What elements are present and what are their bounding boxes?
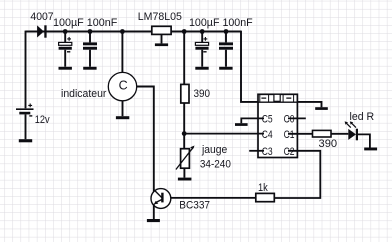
resistor R1 390 xyxy=(181,84,189,103)
resistor R2 390 xyxy=(313,130,332,137)
wire pin C2 to R3 1k xyxy=(274,151,320,198)
wire IC minus pin to ground xyxy=(297,102,321,107)
capacitor C3 100uF xyxy=(195,32,208,67)
resistor R3 1k xyxy=(256,193,274,201)
svg-text:12v: 12v xyxy=(35,114,50,126)
wire meter to ground xyxy=(122,101,124,116)
wire top rail xyxy=(26,31,242,33)
wire rail to R1 xyxy=(183,32,185,85)
junction dot node R1-jauge-C4 xyxy=(182,131,187,136)
ground at emitter xyxy=(147,219,160,222)
variable resistor jauge xyxy=(176,146,195,170)
svg-text:100µF 100nF: 100µF 100nF xyxy=(53,17,118,29)
junction dot at C1 xyxy=(63,29,68,34)
svg-text:C5: C5 xyxy=(262,113,273,125)
wire pin C1 to R2 xyxy=(288,133,313,135)
junction dot rail at R1 xyxy=(182,29,187,34)
svg-text:390: 390 xyxy=(194,88,211,100)
wire jauge to ground xyxy=(183,168,185,177)
ground under meter xyxy=(116,116,129,119)
wire R3 to transistor base xyxy=(163,197,255,199)
pin C0 stub xyxy=(288,117,306,119)
capacitor C2 100nF xyxy=(83,32,97,67)
capacitor C1 100uF xyxy=(59,32,72,67)
wire R2 to LED xyxy=(331,133,348,135)
diode D1 1N4007 xyxy=(37,25,47,37)
LED D2 led R xyxy=(345,121,358,140)
wire battery to ground xyxy=(25,114,27,139)
ground under C3 xyxy=(195,67,208,70)
ground under regulator xyxy=(155,43,168,46)
ground under C1 xyxy=(59,67,72,70)
IC U1 body xyxy=(258,94,297,157)
wire node to pin C4 xyxy=(184,133,264,135)
junction dot indicator branch xyxy=(120,29,125,34)
pin C3 stub xyxy=(249,150,264,152)
junction dot at C4 xyxy=(224,29,229,34)
svg-text:390: 390 xyxy=(319,138,338,150)
wire regulator ground lead xyxy=(161,34,163,43)
ground at LED xyxy=(364,148,377,151)
svg-text:jauge: jauge xyxy=(201,144,227,156)
svg-text:1k: 1k xyxy=(258,182,268,194)
svg-text:led R: led R xyxy=(350,111,375,123)
junction dot at C3 xyxy=(200,29,205,34)
wire meter to transistor collector xyxy=(137,87,154,193)
ground at pin C5 xyxy=(235,123,248,126)
svg-text:indicateur: indicateur xyxy=(61,88,107,100)
junction dot at C2 xyxy=(88,29,93,34)
ground under C2 xyxy=(83,67,96,70)
svg-text:C1: C1 xyxy=(284,129,295,141)
wire node to jauge xyxy=(183,134,185,149)
svg-text:100µF 100nF: 100µF 100nF xyxy=(189,17,253,29)
ground under jauge xyxy=(178,178,192,181)
ground under battery xyxy=(19,139,32,142)
wire transistor emitter to ground xyxy=(153,204,155,219)
capacitor C4 100nF xyxy=(219,32,233,67)
svg-text:C: C xyxy=(119,78,128,92)
wire rail to indicator xyxy=(121,32,123,73)
svg-text:4007: 4007 xyxy=(30,11,53,23)
wire right drop from rail to IC plus pin xyxy=(241,31,258,102)
wire left rail to battery xyxy=(25,31,27,109)
wire R1 to node xyxy=(183,103,185,134)
svg-text:LM78L05: LM78L05 xyxy=(138,11,182,23)
pin C5 stub and ground xyxy=(241,118,264,123)
svg-text:C3: C3 xyxy=(262,146,273,158)
IC U1 top pin band xyxy=(258,94,297,102)
svg-text:34-240: 34-240 xyxy=(200,159,231,171)
regulator U2 LM78L05 box xyxy=(152,26,171,34)
svg-text:C4: C4 xyxy=(262,129,273,141)
meter M1 indicateur circle xyxy=(108,72,136,100)
transistor Q1 BC337 xyxy=(151,189,171,209)
wire LED to ground xyxy=(358,134,370,147)
svg-text:C2: C2 xyxy=(284,146,295,158)
ground at IC minus pin xyxy=(315,107,328,110)
ground under C4 xyxy=(219,67,232,70)
svg-text:BC337: BC337 xyxy=(179,199,210,211)
battery B1 plates xyxy=(16,104,34,116)
